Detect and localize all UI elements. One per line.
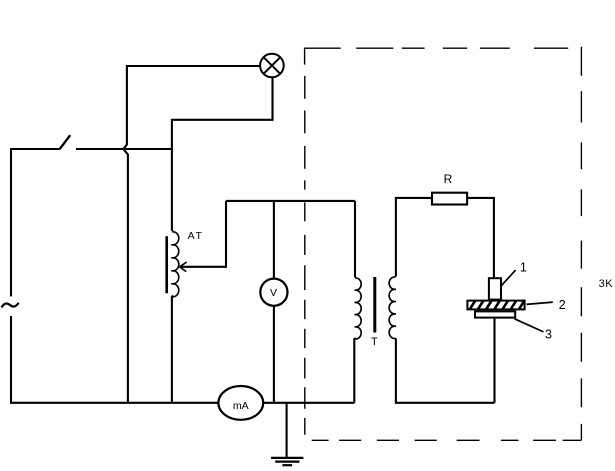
svg-text:V: V (270, 287, 277, 299)
ground (271, 403, 303, 465)
svg-text:3: 3 (545, 327, 552, 341)
leader line to label 2 (527, 302, 553, 304)
wire: electrode lower lead (493, 319, 495, 403)
dashed enclosure left edge (304, 48, 306, 435)
sample 2 hatched box (467, 301, 524, 310)
label 3 (545, 327, 552, 341)
wire: switch to AT vertical (76, 148, 172, 150)
resistor R (432, 193, 467, 205)
leader line to label 1 (501, 270, 515, 286)
label AT (188, 230, 204, 242)
transformer T core bar (373, 277, 376, 333)
wire: AT bottom lead to bottom wire (171, 296, 173, 403)
AT wiper arrow wire (180, 201, 227, 272)
autotransformer AT core bar (165, 236, 168, 293)
wire: primary loop top (226, 200, 355, 202)
wire: bottom wire from mA to primary right leg (263, 402, 354, 404)
wire: left vertical lower segment + bottom wire to mA (11, 316, 218, 403)
voltmeter V (260, 279, 287, 306)
label R (444, 172, 453, 186)
leader line to label 3 (515, 319, 544, 332)
wire: transformer primary right leg upper (354, 201, 356, 278)
wire: lamp branch (kink junction up to top wire, right to lamp) (124, 66, 261, 149)
switch S blade (60, 135, 70, 149)
electrode 3 box (475, 311, 515, 317)
dashed enclosure bottom edge (312, 439, 582, 441)
svg-text:mA: mA (233, 400, 249, 412)
AC source ~ (2, 303, 19, 308)
svg-text:T: T (371, 336, 378, 348)
dashed enclosure right edge (580, 47, 582, 441)
lamp HL (circle with X) (260, 54, 284, 78)
label T (371, 336, 378, 348)
wire: secondary loop left leg lower + bottom (396, 339, 495, 403)
wire: kink junction down long vertical to bottom wire (124, 149, 128, 402)
label 1 (520, 261, 527, 275)
transformer T primary coil (355, 277, 362, 339)
svg-text:2: 2 (559, 298, 566, 312)
wire: lamp bottom lead, left and down to AT top (172, 77, 273, 231)
svg-text:3K: 3K (599, 278, 614, 290)
label 2 (559, 298, 566, 312)
label 3K (599, 278, 614, 290)
svg-text:AT: AT (188, 230, 204, 242)
dashed enclosure top edge (304, 47, 568, 49)
wire: switch feed + left vertical upper segment (11, 149, 60, 296)
electrode pin 1 box (489, 278, 501, 299)
wire: secondary top leg and top wire to resistor (396, 198, 432, 277)
milliammeter mA (218, 386, 263, 420)
transformer T secondary coil (389, 276, 396, 338)
svg-text:R: R (444, 172, 453, 186)
svg-text:1: 1 (520, 261, 527, 275)
wire: resistor to right leg down to electrode 1 (468, 198, 494, 277)
wire: voltmeter branch upper (273, 201, 275, 279)
wire: voltmeter branch lower (273, 306, 275, 403)
wire: transformer primary leg lower (353, 338, 355, 403)
autotransformer AT coil (171, 231, 179, 297)
